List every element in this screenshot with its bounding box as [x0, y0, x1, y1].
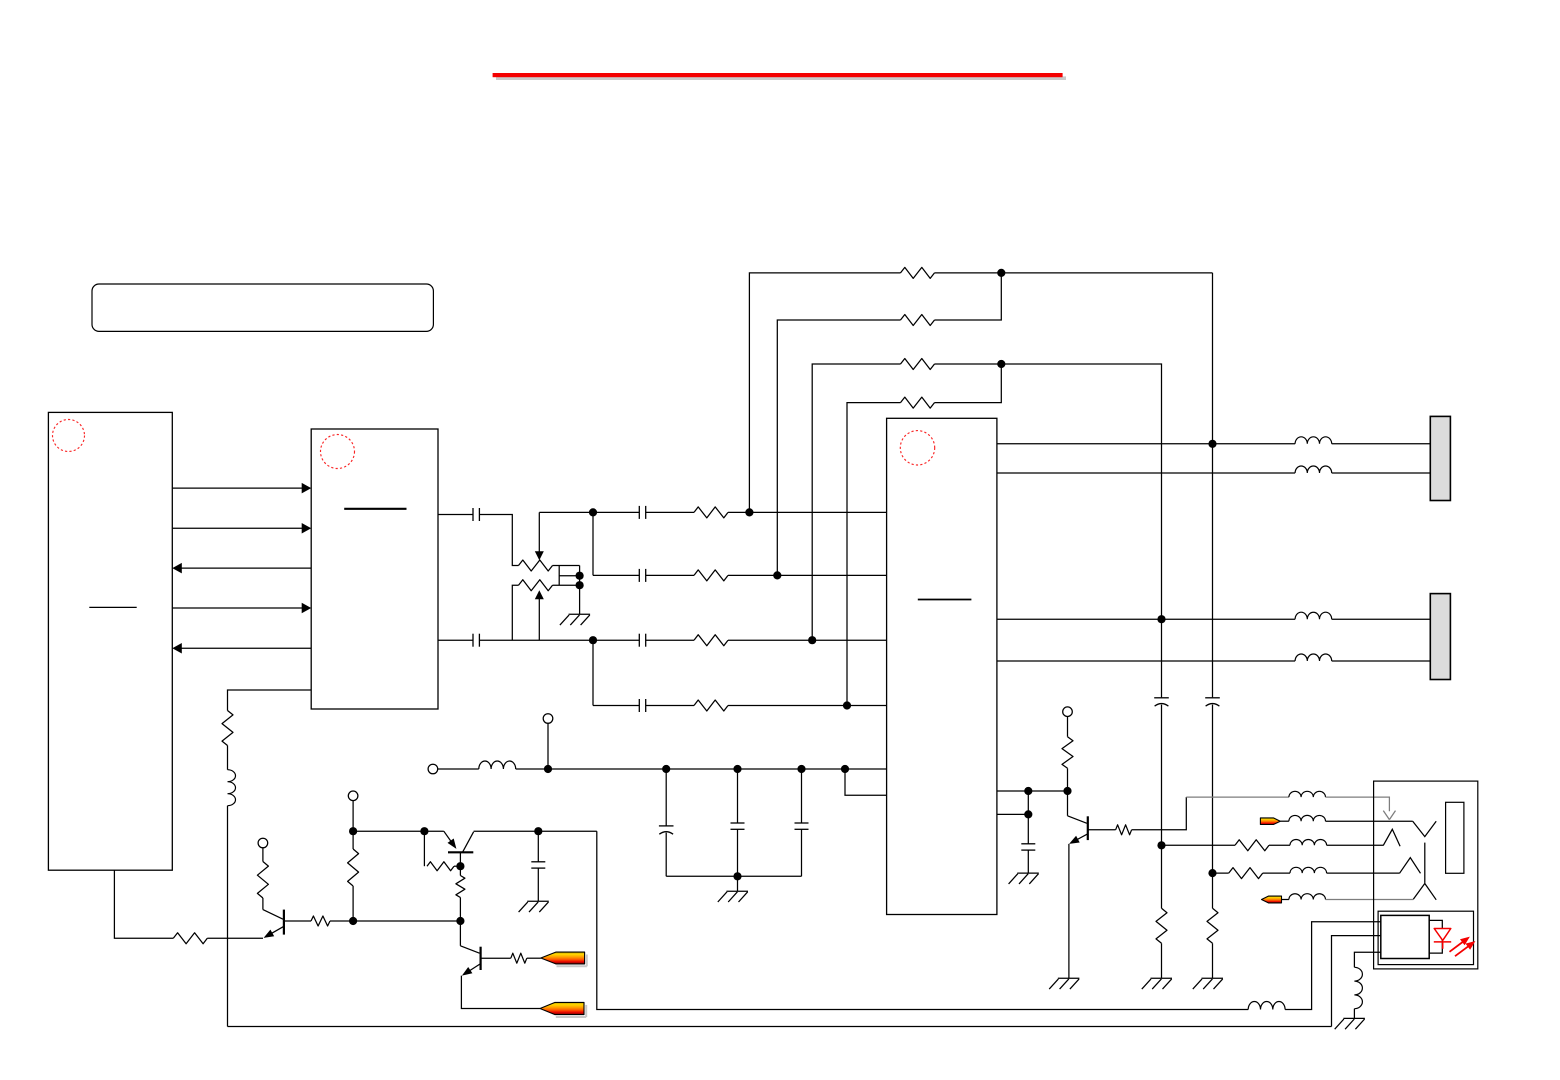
resistor R9 — [257, 862, 268, 899]
capacitor C1 — [472, 508, 474, 521]
wire branch to pot bottom — [512, 585, 518, 640]
contact A — [1383, 829, 1400, 846]
wire R15 leads — [352, 831, 354, 921]
resistor R8 — [694, 700, 728, 711]
node row3/R3 — [808, 636, 816, 644]
wire R13 to node — [454, 865, 460, 867]
wire R2 left — [777, 320, 900, 575]
wire T4 drop — [352, 801, 354, 832]
signal flag F1 shadow — [557, 965, 587, 967]
speaker unit box — [1374, 781, 1478, 969]
resistor R4 — [901, 397, 935, 408]
wire C13 to node — [1212, 705, 1214, 874]
resistor R11 — [173, 933, 207, 944]
wire R12 to L2 — [227, 746, 229, 770]
ground G5 — [1058, 977, 1080, 979]
wire row2 c — [728, 574, 887, 576]
wire C10 stem — [537, 831, 539, 862]
wire Q2 base — [481, 957, 511, 959]
wire Q4 base — [1088, 829, 1116, 831]
wire T1 to L1 — [438, 768, 479, 770]
capacitor C7 — [659, 825, 674, 827]
inductor L1 — [479, 761, 516, 769]
node pin791 a — [1024, 787, 1032, 795]
ground G6 — [1151, 977, 1173, 979]
wire C9 lower stem — [801, 829, 803, 876]
node C13/R21 — [1208, 869, 1216, 877]
wire row2 a — [593, 574, 639, 576]
wire L5 to box — [1327, 844, 1384, 846]
node row3 branch — [589, 636, 597, 644]
red marker circle on U2 — [321, 435, 355, 469]
node pot tap lower — [576, 581, 584, 589]
resistor R13 — [427, 862, 454, 871]
node Q3 base — [456, 862, 464, 870]
transducer V2 — [1413, 884, 1436, 900]
wire vertical from R1 to node — [1212, 273, 1214, 444]
resistor R2 — [901, 315, 935, 326]
inductor L6 — [1290, 867, 1327, 873]
resistor R16 — [511, 953, 527, 963]
pot wiper arrow top — [538, 512, 540, 551]
ground G2 — [727, 890, 749, 892]
connector CN2 — [1430, 594, 1450, 680]
resistor R14 — [456, 876, 465, 898]
wire R21 lead — [1213, 872, 1229, 874]
transistor Q4 — [1087, 816, 1089, 840]
red marker circle on U3 — [900, 431, 934, 465]
node row2/R2 — [773, 571, 781, 579]
inductor L13 — [1295, 654, 1332, 661]
inductor L7 — [1289, 815, 1326, 821]
inductor L8 — [1289, 894, 1326, 900]
inductor L3 — [1248, 1002, 1285, 1010]
bus arrow 5 (U2 to U1) — [181, 647, 311, 649]
wire branch to C11 — [1027, 814, 1029, 843]
signal flag F4 — [1262, 896, 1282, 903]
wire bus to ground — [737, 876, 739, 891]
wire base rail — [353, 920, 460, 922]
capacitor C2 — [472, 634, 474, 647]
node branch — [1024, 810, 1032, 818]
bus arrow 1 (U1 to U2) — [172, 487, 302, 489]
wire U1 bottom drop — [114, 870, 173, 938]
U1 internal line — [89, 606, 136, 608]
wire Q2 emitter — [461, 976, 540, 1009]
transistor Q1 — [283, 910, 285, 935]
capacitor C3 — [638, 506, 640, 519]
wire L2 down — [227, 806, 229, 1027]
wire node to C12 — [1161, 619, 1163, 697]
capacitor C10 — [531, 861, 545, 863]
node rail/C9 — [797, 765, 805, 773]
wire branch down — [1027, 791, 1029, 814]
node line1-right junction — [1208, 440, 1216, 448]
contact B — [1400, 858, 1421, 874]
wire R3 left — [812, 364, 900, 640]
transducer V1 — [1413, 821, 1437, 836]
terminal T5 — [1063, 707, 1073, 717]
optocoupler box — [1378, 911, 1473, 964]
wire R2 right — [935, 273, 1002, 320]
wire Q3 collector rail — [474, 830, 597, 832]
wire T2 drop — [547, 723, 549, 769]
title underline — [493, 73, 1063, 77]
wire R1 right — [935, 272, 1213, 274]
wire Q1 base — [284, 920, 311, 922]
wire L13 to CN2 — [1332, 660, 1431, 662]
resistor R22 — [1207, 908, 1218, 943]
wire node to Q4 — [1067, 791, 1069, 816]
wire U2 bottom to left — [228, 690, 312, 711]
transistor Q2 — [480, 947, 482, 970]
wire out2 — [997, 472, 1295, 474]
ground G3 — [527, 900, 549, 902]
node bus — [733, 872, 741, 880]
node R3/R4 junction — [997, 360, 1005, 368]
transducer link — [1424, 843, 1426, 883]
wire U2 pin A — [438, 514, 473, 516]
red marker circle on U1 — [53, 420, 85, 452]
wire pot bottom rung — [553, 584, 580, 586]
wire rail831 a — [353, 830, 444, 832]
wire R4 right — [935, 364, 1002, 403]
wire node to R22 — [1212, 873, 1214, 908]
wire bottom bus — [228, 1026, 1332, 1028]
wire rail jog to U3 — [845, 769, 887, 795]
wire L6 to box — [1327, 872, 1400, 874]
wire L7 to box — [1326, 820, 1413, 822]
inductor L5 — [1290, 839, 1327, 845]
node rail/C8 — [733, 765, 741, 773]
wire R17 to node — [1067, 768, 1069, 791]
wire L8 to box — [1326, 899, 1414, 901]
wire C12 to node — [1161, 705, 1163, 846]
wire row1 b — [646, 511, 694, 513]
node rail831/C10 — [534, 827, 542, 835]
wire T3 to R9 — [262, 848, 264, 862]
title underline shadow — [496, 76, 1066, 80]
node C12/R19 — [1157, 841, 1165, 849]
node rail/T2 — [544, 765, 552, 773]
wire L12 to CN2 — [1332, 618, 1431, 620]
wire Q4 emitter to ground — [1068, 844, 1070, 978]
resistor R15 — [348, 849, 359, 886]
IC U1 body — [48, 412, 172, 870]
wire vertical to C13 — [1212, 444, 1214, 698]
pot bracket — [559, 566, 579, 615]
inductor L12 — [1295, 612, 1332, 619]
wire R20 to ground — [1161, 943, 1163, 978]
wire L3 to opto — [1285, 922, 1381, 1010]
wire C11 to ground — [1027, 850, 1029, 873]
inductor L4 — [1289, 791, 1326, 797]
pot wiper arrow bottom — [538, 599, 540, 641]
LED stem — [1442, 942, 1444, 949]
wire gray feed b — [1326, 797, 1390, 811]
resistor R1 — [901, 267, 935, 278]
LED arrow 2 — [1455, 946, 1468, 956]
wire row2 b — [646, 574, 694, 576]
U3 internal line — [918, 599, 972, 601]
wire C1 to pot top — [479, 515, 518, 566]
wire C8 lower stem — [737, 829, 739, 876]
wire L10 to CN1 — [1332, 443, 1431, 445]
resistor R18 — [1116, 825, 1132, 835]
wire R19 lead — [1162, 844, 1236, 846]
signal flag F2 shadow — [556, 1016, 586, 1018]
wire R11 to Q1 — [207, 937, 263, 939]
terminal T1 — [428, 764, 438, 774]
capacitor C13 — [1205, 697, 1220, 699]
wire R4 left — [847, 403, 901, 706]
node base rail left — [349, 917, 357, 925]
wire F3 to L7 — [1280, 820, 1289, 822]
resistor R20 — [1156, 908, 1167, 943]
wire L11 to CN1 — [1332, 472, 1431, 474]
wire opto pin2 riser — [1332, 936, 1381, 1027]
wire right drop to bottom — [597, 831, 1248, 1009]
signal flag F2 — [540, 1002, 584, 1014]
capacitor C9 — [795, 822, 809, 824]
IC U3 body — [887, 418, 997, 914]
IC U2 body — [311, 429, 438, 709]
wire C9 stem — [801, 769, 803, 823]
wire pot top rung — [553, 565, 580, 567]
wire C7 lower stem — [665, 833, 667, 877]
callout box — [92, 284, 433, 331]
wire row4 b — [646, 705, 694, 707]
node rail831/Q3base — [420, 827, 428, 835]
capacitor C4 — [638, 569, 640, 582]
connector CN1 — [1430, 416, 1450, 500]
wire row3 c — [728, 639, 887, 641]
node rail jog — [841, 765, 849, 773]
wire R21 to L6 — [1263, 872, 1290, 874]
node out3 — [1157, 615, 1165, 623]
optocoupler bracket — [1429, 920, 1442, 953]
ground G1 (pot) — [569, 613, 591, 615]
LED bar — [1434, 941, 1451, 943]
bus arrow 3 (U2 to U1) — [181, 567, 311, 569]
bus arrow 2 (U1 to U2) — [172, 527, 302, 529]
inductor L2 — [228, 770, 236, 806]
wire R14 leads — [459, 866, 461, 921]
node pin791 b — [1063, 787, 1071, 795]
wire rail — [516, 768, 887, 770]
wire C8 stem — [737, 769, 739, 823]
wire R9 to Q1 — [262, 898, 264, 910]
wire C2 along row3 — [479, 639, 593, 641]
capacitor C11 — [1021, 843, 1035, 845]
wire R19 to L5 — [1269, 844, 1290, 846]
resistor R3 — [901, 359, 935, 370]
potentiometer VR1 element B — [519, 580, 553, 591]
resistor R5 — [694, 507, 728, 518]
wire U3 pin to Q4 — [997, 790, 1068, 792]
node rail831/T4 — [349, 827, 357, 835]
wire C10 to ground — [537, 868, 539, 901]
wire cap bus — [666, 875, 801, 877]
ground G4 — [1017, 872, 1039, 874]
wire out3 — [997, 618, 1295, 620]
bus arrow 4 (U1 to U2) — [172, 607, 302, 609]
wire node to Q2 — [459, 921, 461, 946]
optocoupler IC body — [1381, 915, 1429, 958]
wire opto pin3 — [1354, 952, 1380, 967]
wire row1-row2 drop — [592, 512, 594, 575]
LED triangle — [1434, 929, 1451, 941]
U2 internal line — [344, 508, 406, 510]
node pot tap upper — [576, 572, 584, 580]
inductor L9 — [1354, 967, 1362, 1008]
capacitor C12 — [1154, 697, 1169, 699]
wire Q3 base pull — [423, 831, 425, 866]
wire R18 to corner — [1132, 797, 1187, 830]
node row1 branch — [589, 508, 597, 516]
speaker inner rect — [1446, 802, 1464, 873]
wire R10 to node — [330, 920, 353, 922]
capacitor C6 — [638, 699, 640, 712]
resistor R6 — [694, 570, 728, 581]
node row4/R4 — [843, 701, 851, 709]
wire row3 b — [646, 639, 694, 641]
resistor R10 — [311, 916, 330, 926]
wire L9 to ground — [1353, 1009, 1355, 1019]
node row1/R1 — [745, 508, 753, 516]
LED arrow 1 — [1450, 942, 1463, 952]
potentiometer VR1 element A — [519, 560, 553, 571]
node base rail right — [456, 917, 464, 925]
resistor R7 — [694, 635, 728, 646]
capacitor C5 — [638, 634, 640, 647]
open arrow into speaker — [1383, 811, 1395, 820]
wire gray feed a — [1186, 796, 1289, 798]
ground G8 — [1343, 1017, 1365, 1019]
wire branch to U3 — [997, 813, 1028, 815]
resistor R19 — [1235, 840, 1269, 851]
terminal T2 — [543, 714, 553, 724]
wire out4 — [997, 660, 1295, 662]
terminal T4 — [348, 791, 358, 801]
node rail/C7 — [662, 765, 670, 773]
wire row3-row4 drop — [592, 640, 594, 705]
wire C7 stem — [665, 769, 667, 826]
wire row3 a — [593, 639, 639, 641]
wire out1 — [997, 443, 1295, 445]
wire row4 c — [728, 705, 887, 707]
resistor R12 — [222, 711, 233, 746]
wire R1 left — [749, 273, 900, 513]
resistor R17 — [1062, 737, 1073, 769]
wire R22 to ground — [1212, 943, 1214, 978]
wire row1 a — [539, 511, 639, 513]
signal flag F1 — [541, 952, 585, 964]
inductor L11 — [1295, 466, 1332, 473]
wire F4 to L8 — [1282, 899, 1289, 901]
capacitor C8 — [731, 822, 745, 824]
signal flag F3 — [1260, 818, 1280, 825]
wire row4 a — [593, 705, 639, 707]
resistor R21 — [1229, 868, 1263, 879]
terminal T3 — [258, 838, 268, 848]
ground G7 — [1202, 977, 1224, 979]
node R1/R2 junction — [997, 269, 1005, 277]
inductor L10 — [1295, 437, 1332, 444]
wire T5 to R17 — [1067, 717, 1069, 737]
transistor Q3 — [448, 851, 473, 853]
wire node to R20 — [1161, 845, 1163, 908]
wire R16 to F1 — [527, 957, 541, 959]
wire R3 right — [935, 364, 1162, 619]
wire row1 c — [728, 511, 887, 513]
wire U2 pin B — [438, 639, 473, 641]
